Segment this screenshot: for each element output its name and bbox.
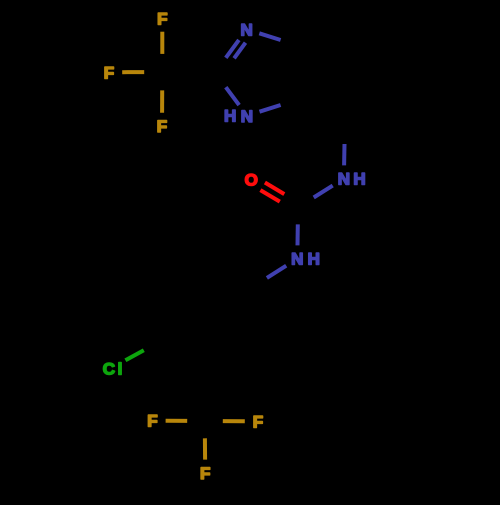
svg-text:F: F: [147, 412, 157, 431]
wire bond Nu1-C9: [314, 186, 333, 198]
atom F label F5: [253, 412, 263, 431]
atom N label N3: [241, 20, 253, 39]
wire bond C8-F2: [122, 70, 144, 74]
svg-text:F: F: [157, 10, 167, 29]
atom F label F1: [157, 10, 167, 29]
svg-text:F: F: [157, 117, 167, 136]
atom Cl label Cl1: [103, 359, 123, 378]
wire bond N1-C7a: [260, 105, 281, 112]
atom F label F2: [104, 63, 114, 82]
svg-text:O: O: [245, 171, 258, 190]
atom F label F6: [200, 464, 210, 483]
wire bond C4p-Cl1: [125, 350, 143, 360]
atom F label F4: [147, 412, 157, 431]
wire bond C10-F4: [166, 419, 188, 423]
wire bond C8-F1: [160, 32, 164, 54]
svg-text:N: N: [291, 250, 303, 269]
atom F label F3: [157, 117, 167, 136]
wire bond C7-Nu1: [342, 144, 346, 165]
svg-text:F: F: [200, 464, 210, 483]
wire bond Nu2-C1p: [267, 266, 286, 278]
svg-text:H: H: [224, 107, 236, 126]
svg-text:C: C: [103, 360, 115, 379]
svg-text:N: N: [241, 107, 253, 126]
wire double bond C9=O1: [265, 183, 284, 195]
wire bond C10-F5: [223, 419, 245, 423]
svg-text:H: H: [353, 170, 365, 189]
svg-text:F: F: [104, 63, 114, 82]
wire bond C10-F6: [203, 438, 207, 459]
atom NH label Nu1: [338, 170, 366, 189]
wire bond C8-F3: [160, 90, 164, 112]
wire bond N1-C2: [226, 87, 239, 105]
wire bond N3-C3a: [259, 33, 280, 40]
atom O label O1: [245, 171, 258, 190]
wire double bond N3=C2: [226, 40, 239, 58]
svg-text:l: l: [118, 359, 123, 378]
svg-text:N: N: [338, 170, 350, 189]
atom HN label N1: [224, 107, 253, 126]
svg-text:N: N: [241, 20, 253, 39]
wire double bond N3=C2: [234, 43, 245, 59]
svg-text:H: H: [308, 250, 320, 269]
wire double bond C9=O1: [260, 190, 279, 202]
svg-text:F: F: [253, 412, 263, 431]
wire bond C9-Nu2: [296, 224, 300, 245]
atom NH label Nu2: [291, 250, 320, 269]
